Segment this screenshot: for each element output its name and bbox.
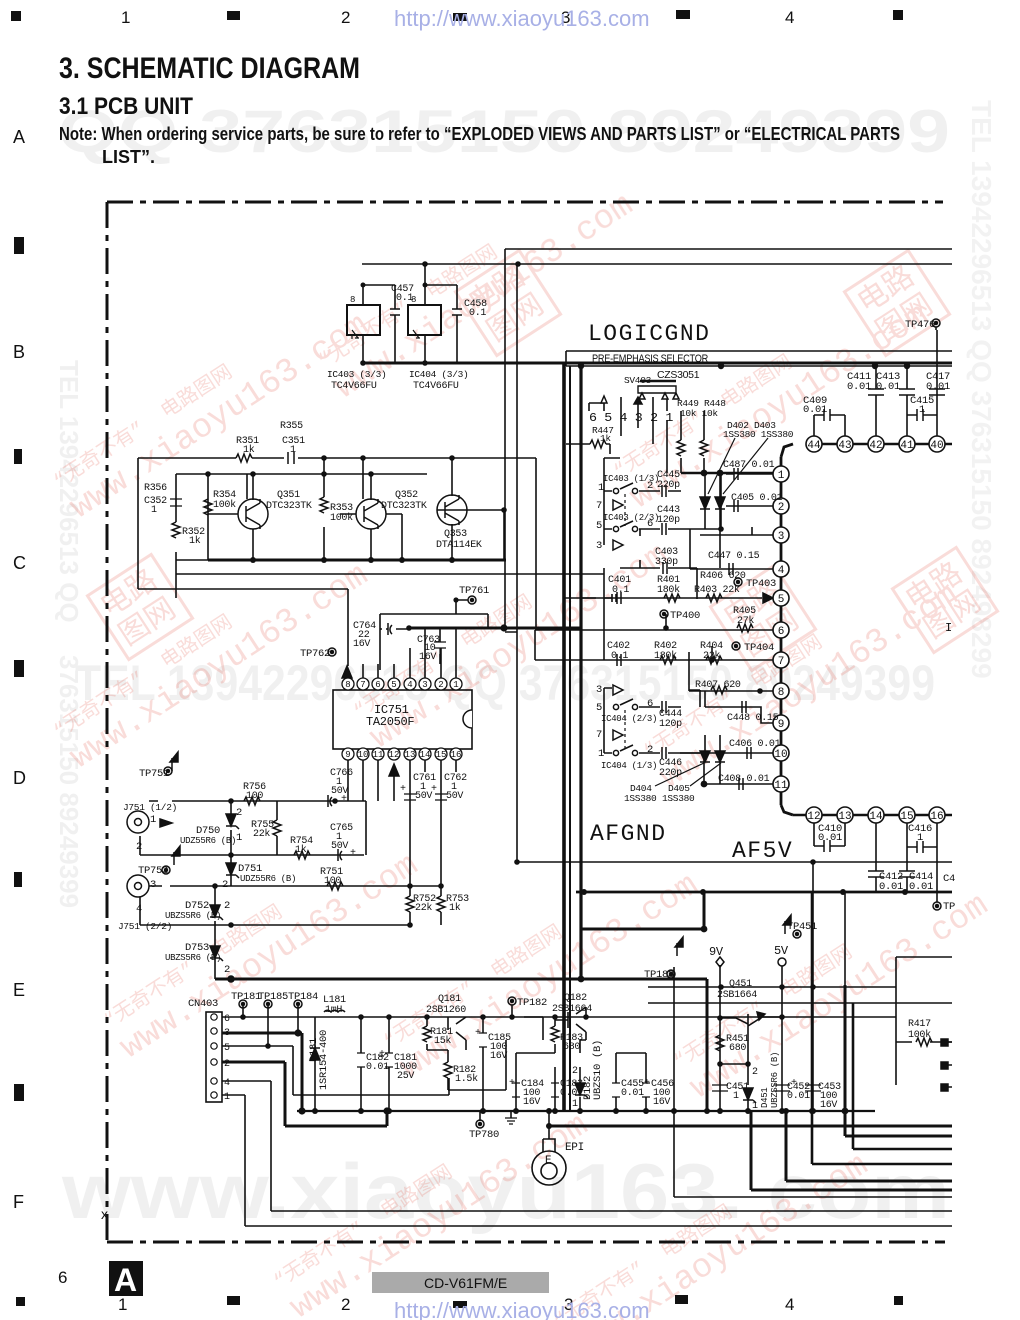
svg-text:EPI: EPI	[565, 1142, 584, 1154]
svg-text:DTC323TK: DTC323TK	[381, 501, 427, 512]
svg-text:0.01: 0.01	[560, 1088, 583, 1099]
svg-text:+: +	[400, 784, 406, 795]
svg-text:42: 42	[869, 440, 882, 452]
svg-text:27k: 27k	[737, 615, 754, 627]
svg-text:C487 0.01: C487 0.01	[723, 460, 775, 471]
svg-text:AF5V: AF5V	[732, 838, 793, 864]
svg-text:100: 100	[324, 876, 341, 887]
svg-text:E: E	[13, 980, 25, 1000]
svg-text:1SS380: 1SS380	[624, 793, 657, 804]
svg-text:8: 8	[778, 687, 785, 699]
svg-text:41: 41	[900, 440, 914, 452]
svg-text:PRE-EMPHASIS SELECTOR: PRE-EMPHASIS SELECTOR	[592, 353, 708, 365]
svg-text:220p: 220p	[659, 768, 682, 779]
svg-text:Q181: Q181	[438, 994, 461, 1005]
svg-text:UBZSSR6 (B): UBZSSR6 (B)	[770, 1052, 780, 1108]
svg-text:TC4V66FU: TC4V66FU	[413, 381, 459, 392]
svg-text:1: 1	[151, 505, 157, 516]
svg-text:CN403: CN403	[188, 998, 218, 1010]
svg-text:100k: 100k	[213, 499, 236, 511]
svg-text:8: 8	[411, 295, 416, 305]
svg-text:1: 1	[733, 1091, 739, 1102]
svg-text:16V: 16V	[653, 1097, 670, 1108]
svg-text:C447 0.15: C447 0.15	[708, 551, 760, 562]
svg-text:1: 1	[453, 680, 458, 690]
svg-text:2: 2	[136, 841, 142, 853]
svg-text:IC404 (1/3): IC404 (1/3)	[601, 761, 657, 771]
svg-text:UDZ55R6 (B): UDZ55R6 (B)	[240, 874, 296, 884]
svg-text:14: 14	[420, 750, 431, 760]
svg-text:AFGND: AFGND	[590, 821, 667, 847]
svg-text:16: 16	[930, 811, 943, 823]
svg-text:Q352: Q352	[395, 490, 418, 501]
svg-text:+: +	[350, 848, 356, 859]
svg-text:D181: D181	[308, 1038, 320, 1062]
svg-text:UDZ55R6 (B): UDZ55R6 (B)	[180, 836, 236, 846]
svg-text:0.01: 0.01	[621, 1088, 644, 1099]
svg-text:16V: 16V	[490, 1051, 507, 1062]
svg-text:+: +	[644, 1078, 650, 1089]
svg-text:2: 2	[647, 480, 653, 492]
svg-text:12: 12	[807, 811, 820, 823]
svg-text:5: 5	[596, 702, 602, 714]
svg-text:3: 3	[150, 879, 156, 891]
svg-text:TP400: TP400	[670, 610, 700, 622]
svg-text:120p: 120p	[657, 515, 680, 526]
svg-text:4: 4	[224, 1078, 230, 1089]
svg-text:C406 0.01: C406 0.01	[729, 739, 781, 750]
svg-text:1: 1	[150, 814, 156, 826]
svg-text:UBZS5R6 (B): UBZS5R6 (B)	[165, 911, 221, 921]
svg-text:4: 4	[778, 565, 785, 577]
svg-text:2: 2	[341, 8, 350, 27]
svg-text:CZS3051: CZS3051	[657, 369, 700, 381]
svg-text:0.1: 0.1	[611, 651, 628, 662]
svg-text:5: 5	[596, 520, 602, 532]
svg-text:1SS380 1SS380: 1SS380 1SS380	[723, 429, 794, 440]
svg-text:TP184: TP184	[288, 991, 318, 1003]
svg-text:6: 6	[58, 1268, 67, 1287]
svg-text:J751 (2/2): J751 (2/2)	[118, 921, 172, 932]
svg-text:3: 3	[778, 531, 785, 543]
svg-text:0.01: 0.01	[818, 832, 842, 844]
svg-text:C: C	[13, 553, 26, 573]
svg-text:2SB1664: 2SB1664	[552, 1004, 592, 1015]
svg-text:100k: 100k	[330, 512, 353, 524]
svg-text:TA2050F: TA2050F	[366, 715, 414, 729]
svg-text:6: 6	[647, 518, 653, 530]
svg-text:50V: 50V	[446, 791, 463, 802]
svg-text:8: 8	[350, 295, 355, 305]
svg-text:0.01: 0.01	[787, 1091, 810, 1102]
svg-text:11: 11	[373, 750, 384, 760]
svg-text:C408 0.01: C408 0.01	[718, 774, 770, 785]
svg-text:50V: 50V	[331, 841, 348, 852]
svg-text:14: 14	[869, 811, 883, 823]
svg-text:5V: 5V	[774, 944, 789, 958]
svg-text:TP751: TP751	[139, 768, 169, 780]
svg-text:15k: 15k	[434, 1035, 451, 1047]
svg-text:1: 1	[121, 8, 130, 27]
svg-text:7: 7	[778, 656, 785, 668]
svg-text:2: 2	[341, 1295, 350, 1314]
svg-text:TP752: TP752	[138, 865, 168, 877]
svg-text:2: 2	[224, 1059, 230, 1070]
svg-text:4: 4	[407, 680, 412, 690]
svg-text:22k: 22k	[415, 902, 432, 914]
svg-text:1k: 1k	[449, 902, 461, 914]
svg-text:TP185: TP185	[258, 991, 288, 1003]
svg-text:2SB1664: 2SB1664	[717, 990, 757, 1001]
svg-text:TP183: TP183	[644, 969, 674, 981]
svg-text:Q451: Q451	[729, 979, 752, 990]
svg-text:1.5k: 1.5k	[455, 1073, 478, 1085]
svg-text:4: 4	[785, 1295, 794, 1314]
svg-text:2: 2	[236, 807, 242, 819]
svg-text:R406 620: R406 620	[700, 571, 746, 582]
svg-text:0.01: 0.01	[803, 404, 827, 416]
svg-text:SV403: SV403	[624, 375, 652, 386]
svg-text:16V: 16V	[419, 652, 436, 663]
svg-text:1: 1	[224, 1092, 230, 1103]
svg-text:TP404: TP404	[744, 642, 774, 654]
svg-text:1: 1	[236, 832, 242, 844]
svg-text:44: 44	[807, 440, 821, 452]
svg-text:C448 0.15: C448 0.15	[727, 713, 779, 724]
svg-text:1: 1	[778, 470, 785, 482]
svg-text:4: 4	[785, 8, 794, 27]
svg-text:6 5 4 3 2 1: 6 5 4 3 2 1	[589, 412, 673, 425]
svg-text:1: 1	[917, 832, 923, 844]
svg-text:A: A	[13, 127, 25, 147]
svg-text:13: 13	[405, 750, 416, 760]
svg-text:3: 3	[422, 680, 427, 690]
svg-text:1k: 1k	[600, 433, 611, 444]
svg-text:TP762: TP762	[300, 648, 330, 660]
svg-text:3: 3	[224, 1028, 230, 1039]
svg-text:TP: TP	[943, 901, 955, 913]
svg-text:7: 7	[596, 729, 602, 741]
svg-text:22k: 22k	[253, 828, 270, 840]
svg-text:25V: 25V	[397, 1071, 414, 1082]
svg-text:0.1: 0.1	[612, 585, 629, 596]
svg-text:DTA114EK: DTA114EK	[436, 540, 482, 551]
svg-text:TP451: TP451	[787, 921, 817, 933]
svg-text:1: 1	[752, 1101, 758, 1112]
svg-text:TP476: TP476	[905, 319, 935, 331]
svg-text:LIST”.: LIST”.	[102, 147, 155, 167]
svg-text:A: A	[114, 1262, 137, 1298]
svg-text:15: 15	[900, 811, 913, 823]
svg-text:TP181: TP181	[231, 991, 261, 1003]
svg-text:15: 15	[436, 750, 447, 760]
svg-text:R403 22k: R403 22k	[694, 584, 740, 596]
svg-text:3: 3	[596, 540, 602, 552]
svg-text:Q182: Q182	[564, 993, 587, 1004]
svg-text:2SB1260: 2SB1260	[426, 1005, 466, 1016]
svg-text:+: +	[509, 1078, 515, 1089]
svg-text:100: 100	[246, 791, 263, 802]
svg-text:2: 2	[224, 900, 230, 912]
svg-text:+: +	[431, 784, 437, 795]
svg-text:0.01: 0.01	[926, 381, 950, 393]
svg-text:6: 6	[375, 680, 380, 690]
svg-text:TP182: TP182	[517, 997, 547, 1009]
svg-text:16V: 16V	[353, 639, 370, 650]
svg-text:R355: R355	[280, 421, 303, 432]
svg-text:43: 43	[838, 440, 851, 452]
svg-text:C4: C4	[943, 873, 955, 885]
svg-text:2: 2	[438, 680, 443, 690]
svg-text:16V: 16V	[820, 1100, 837, 1111]
svg-text:1k: 1k	[243, 444, 255, 456]
svg-text:0.01: 0.01	[366, 1062, 389, 1073]
svg-text:1: 1	[598, 748, 604, 760]
svg-text:IC403 (3/3): IC403 (3/3)	[327, 369, 386, 380]
svg-text:376315150 89249399: 376315150 89249399	[54, 655, 84, 908]
svg-text:180k: 180k	[654, 650, 677, 662]
svg-text:7: 7	[360, 680, 365, 690]
svg-text:220p: 220p	[657, 480, 680, 491]
svg-text:http://www.xiaoyu163.com: http://www.xiaoyu163.com	[394, 6, 650, 31]
svg-text:Q351: Q351	[277, 490, 300, 501]
svg-text:12: 12	[389, 750, 400, 760]
svg-text:0.01: 0.01	[847, 381, 871, 393]
svg-text:2: 2	[572, 1066, 578, 1077]
svg-text:8: 8	[345, 680, 350, 690]
svg-text:16V: 16V	[523, 1097, 540, 1108]
svg-text:5: 5	[391, 680, 396, 690]
svg-text:Note: When ordering service pa: Note: When ordering service parts, be su…	[59, 124, 900, 144]
svg-text:1SS380: 1SS380	[662, 793, 695, 804]
svg-text:680: 680	[563, 1042, 580, 1053]
svg-text:6: 6	[778, 626, 785, 638]
svg-text:13: 13	[838, 811, 851, 823]
svg-text:9V: 9V	[709, 945, 724, 959]
svg-text:DTC323TK: DTC323TK	[266, 501, 312, 512]
svg-text:R356: R356	[144, 483, 167, 494]
svg-text:9: 9	[778, 719, 785, 731]
svg-text:LOGICGND: LOGICGND	[588, 321, 710, 347]
svg-text:10: 10	[358, 750, 369, 760]
svg-text:100k: 100k	[908, 1029, 931, 1041]
svg-text:TC4V66FU: TC4V66FU	[331, 381, 377, 392]
svg-text:R417: R417	[908, 1019, 931, 1030]
svg-text:D182: D182	[582, 1076, 594, 1100]
svg-text:CD-V61FM/E: CD-V61FM/E	[424, 1275, 507, 1291]
svg-text:180k: 180k	[657, 584, 680, 596]
svg-text:0.1: 0.1	[469, 308, 486, 319]
svg-text:0.01: 0.01	[879, 881, 903, 893]
svg-text:2: 2	[224, 964, 230, 976]
svg-text:330p: 330p	[655, 557, 678, 568]
svg-text:1mH: 1mH	[325, 1005, 342, 1016]
svg-text:TP780: TP780	[469, 1129, 499, 1141]
svg-text:7: 7	[596, 500, 602, 512]
svg-text:1k: 1k	[189, 535, 201, 547]
svg-text:3: 3	[596, 684, 602, 696]
svg-text:1: 1	[290, 445, 296, 456]
svg-text:5: 5	[778, 594, 785, 606]
svg-text:9: 9	[345, 750, 350, 760]
svg-text:TP761: TP761	[459, 585, 489, 597]
svg-text:1: 1	[919, 404, 925, 416]
svg-text:E: E	[545, 1155, 552, 1167]
svg-text:3. SCHEMATIC DIAGRAM: 3. SCHEMATIC DIAGRAM	[59, 52, 360, 85]
svg-text:IC404 (3/3): IC404 (3/3)	[409, 369, 468, 380]
svg-text:C405 0.01: C405 0.01	[731, 493, 783, 504]
svg-text:5: 5	[224, 1043, 230, 1054]
svg-text:I: I	[945, 621, 952, 635]
svg-text:F: F	[13, 1192, 24, 1212]
svg-text:10: 10	[774, 749, 787, 761]
svg-text:6: 6	[224, 1014, 230, 1025]
svg-text:6: 6	[647, 698, 653, 710]
svg-text:22k: 22k	[703, 650, 720, 662]
svg-text:J751 (1/2): J751 (1/2)	[123, 802, 177, 813]
svg-text:50V: 50V	[415, 791, 432, 802]
svg-text:2: 2	[647, 744, 653, 756]
svg-text:2: 2	[752, 1067, 758, 1078]
svg-text:IC404 (2/3): IC404 (2/3)	[601, 714, 657, 724]
svg-text:0.01: 0.01	[876, 381, 900, 393]
svg-text:1: 1	[572, 1099, 578, 1110]
svg-text:TP403: TP403	[746, 578, 776, 590]
svg-text:1: 1	[598, 482, 604, 494]
svg-text:3.1 PCB UNIT: 3.1 PCB UNIT	[59, 93, 193, 120]
svg-text:B: B	[13, 342, 25, 362]
svg-text:R407 620: R407 620	[695, 680, 741, 691]
svg-text:0.01: 0.01	[909, 881, 933, 893]
svg-text:2: 2	[222, 879, 228, 891]
svg-text:UBZS5R6 (B): UBZS5R6 (B)	[165, 953, 221, 963]
svg-text:4: 4	[136, 903, 142, 915]
svg-text:40: 40	[930, 440, 943, 452]
svg-text:D: D	[13, 768, 26, 788]
svg-text:+: +	[475, 1028, 481, 1039]
svg-text:120p: 120p	[659, 719, 682, 730]
svg-text:11: 11	[774, 780, 788, 792]
svg-text:D451: D451	[760, 1088, 770, 1108]
svg-text:10k 10k: 10k 10k	[680, 408, 718, 419]
svg-text:Q353: Q353	[444, 529, 467, 540]
svg-text:1k: 1k	[295, 844, 307, 856]
svg-text:680: 680	[729, 1043, 746, 1054]
svg-text:+: +	[341, 794, 347, 805]
svg-text:http://www.xiaoyu163.com: http://www.xiaoyu163.com	[394, 1298, 650, 1320]
svg-text:16: 16	[451, 750, 462, 760]
